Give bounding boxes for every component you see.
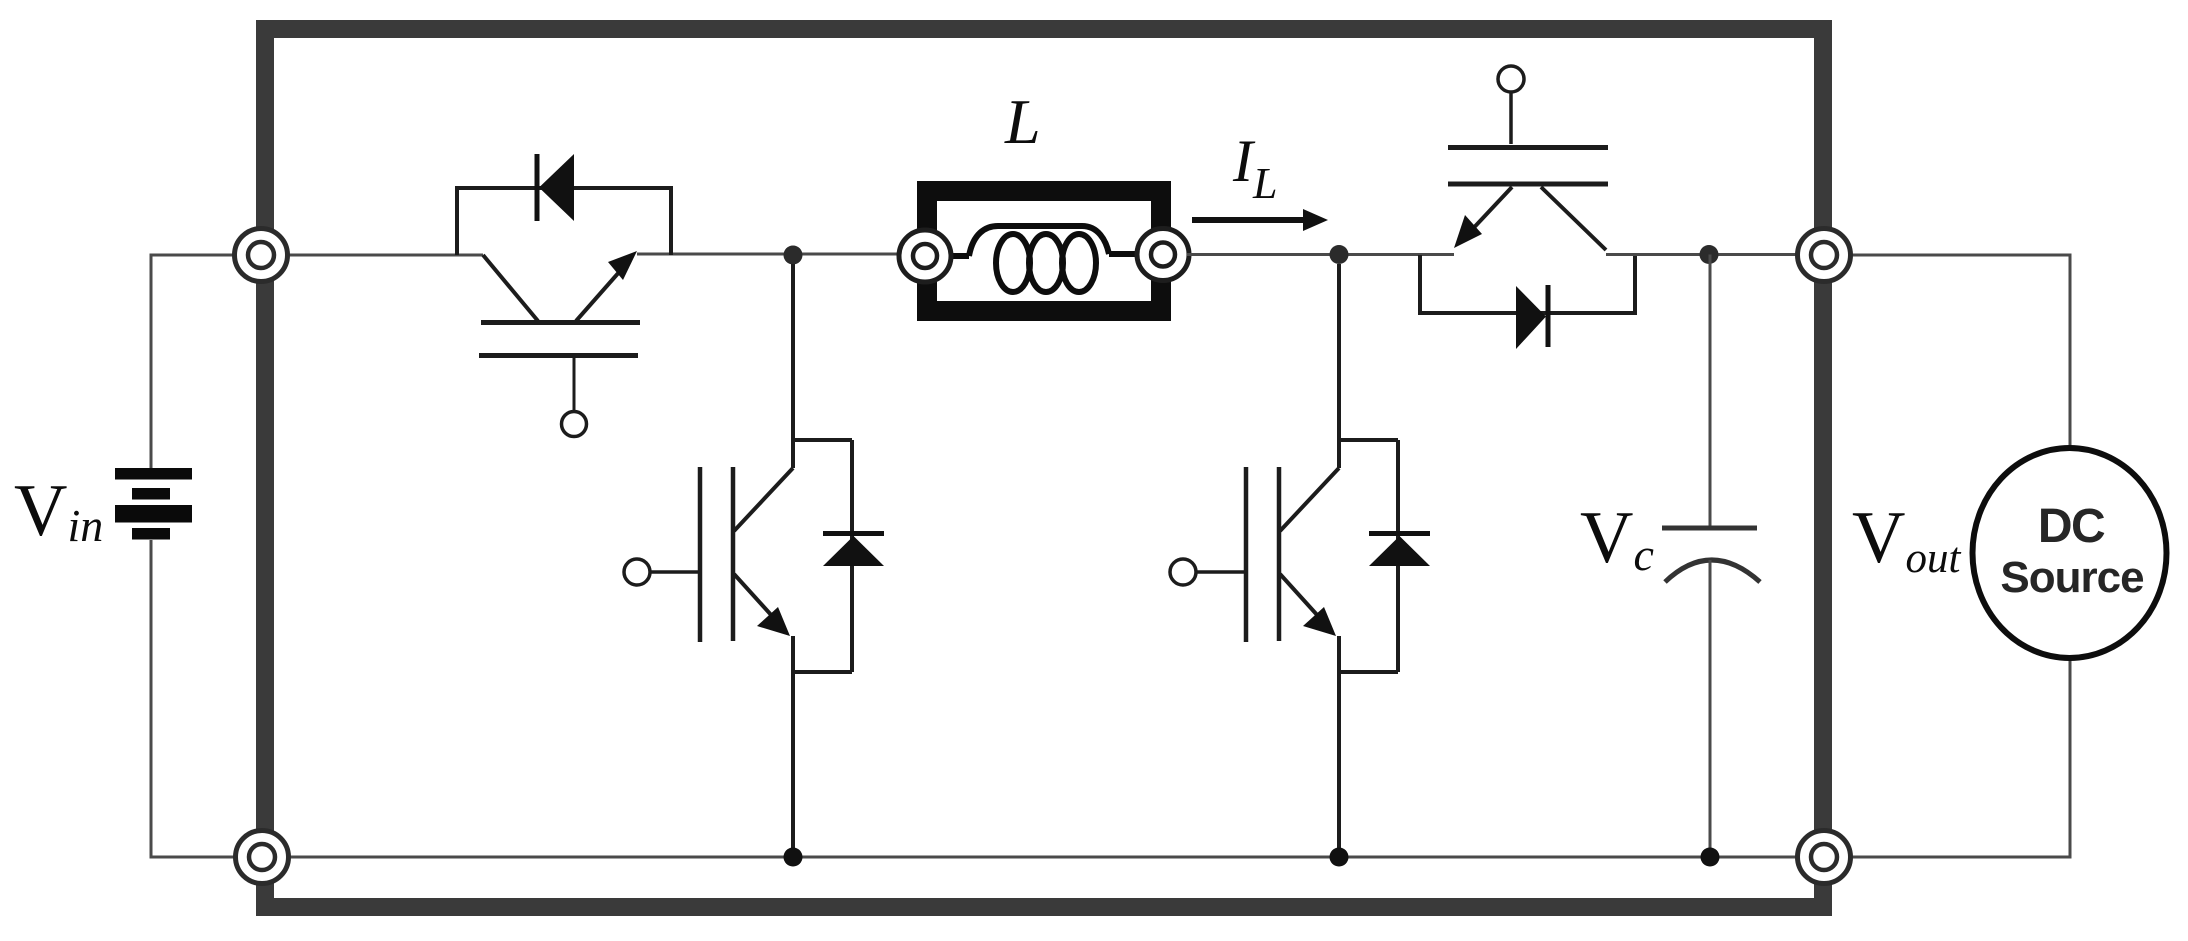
IGBT Q2 (top-right, horizontal)	[1448, 93, 1608, 250]
diode D3 branch (antiparallel with Q3)	[850, 440, 854, 672]
terminal (output top)	[1798, 229, 1851, 282]
diode D1 loop (antiparallel with Q1)	[457, 188, 671, 255]
diode D4 branch (antiparallel with Q4)	[1396, 440, 1400, 672]
wire: capacitor bottom lead	[1709, 560, 1712, 857]
Q1 emitter arrowhead	[608, 251, 637, 280]
wire: Q2 to node C	[1606, 253, 1798, 256]
svg-text:Source: Source	[2000, 553, 2143, 602]
diode D1 symbol	[535, 154, 540, 221]
svg-text:Vc: Vc	[1580, 497, 1654, 580]
DC source	[1973, 448, 2167, 658]
terminal (output bottom)	[1798, 831, 1851, 884]
svg-text:IL: IL	[1232, 128, 1277, 208]
svg-text:L: L	[1004, 86, 1041, 157]
diode D2 symbol	[1546, 285, 1551, 347]
diode D4 symbol	[1369, 531, 1430, 536]
Q4 emitter arrowhead	[1303, 607, 1336, 636]
inductor L box	[927, 191, 1161, 311]
diode D2 loop (antiparallel with Q2)	[1420, 255, 1635, 313]
wire: capacitor top lead	[1709, 255, 1712, 529]
node C junction	[1700, 245, 1719, 264]
wire: inductor to node B	[1187, 253, 1454, 256]
Q2 emitter arrowhead	[1454, 215, 1482, 248]
node E junction (Q4 emitter)	[1330, 848, 1349, 867]
IGBT Q4 (bottom-right, vertical)	[1196, 264, 1398, 857]
terminal (input bottom)	[236, 831, 289, 884]
svg-text:Vin: Vin	[14, 470, 103, 552]
Q1 gate terminal circle	[562, 412, 587, 437]
node D junction (Q3 emitter)	[784, 848, 803, 867]
terminal (input top)	[235, 229, 288, 282]
capacitor C plates	[1662, 526, 1757, 531]
diode D3 symbol	[823, 531, 884, 536]
wire: Vin negative lead	[151, 540, 262, 857]
inductor L coil	[946, 226, 1140, 292]
Q2 gate terminal circle	[1498, 66, 1524, 92]
battery Vin	[115, 468, 192, 540]
converter enclosure box	[265, 29, 1823, 907]
IGBT Q1 (top-left, horizontal)	[479, 255, 640, 411]
wire: top bus left segment	[261, 254, 483, 257]
Q3 emitter arrowhead	[757, 607, 790, 636]
wire: Q1 emitter to node A	[637, 253, 899, 256]
node F junction (capacitor)	[1701, 848, 1720, 867]
wire: bottom bus	[262, 856, 1824, 859]
node A junction	[784, 246, 803, 265]
wire: Vin positive lead	[151, 255, 261, 468]
terminal (inductor right)	[1137, 229, 1189, 281]
svg-text:DC: DC	[2038, 500, 2105, 553]
IGBT Q3 (bottom-left, vertical)	[650, 264, 852, 857]
terminal (inductor left)	[899, 230, 951, 282]
node B junction	[1330, 245, 1349, 264]
Q4 gate terminal circle	[1170, 559, 1196, 585]
svg-text:Vout: Vout	[1852, 497, 1961, 582]
Q3 gate terminal circle	[624, 559, 650, 585]
wire: output bottom lead	[1824, 658, 2070, 857]
wire: output top lead	[1824, 255, 2070, 448]
current arrow IL	[1192, 217, 1305, 223]
